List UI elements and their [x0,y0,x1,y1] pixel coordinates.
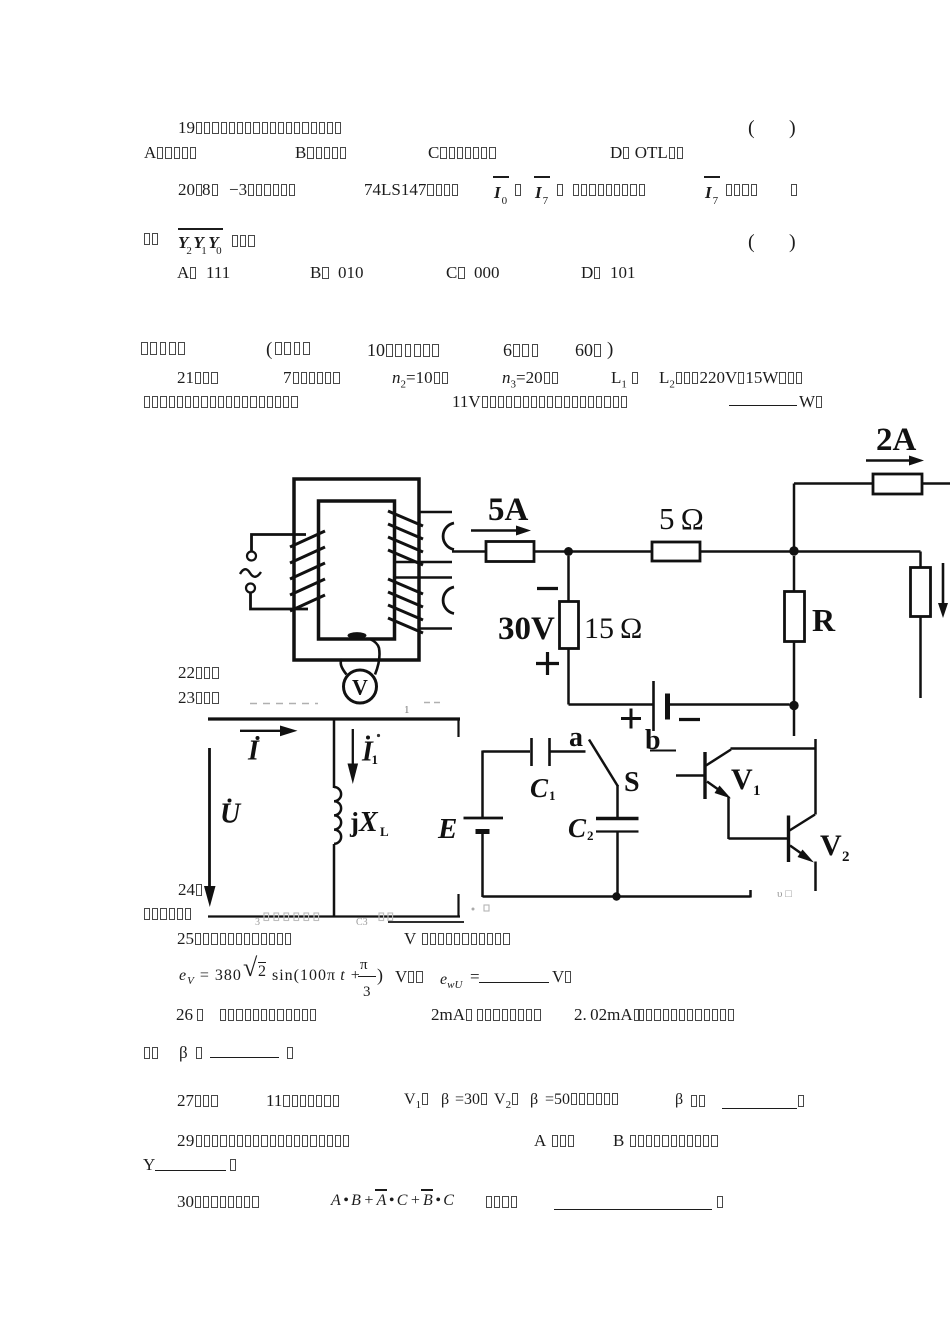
wire node B right corner down [919,552,922,568]
wire V1 emitter down [727,797,730,840]
wire bottom right segment [668,703,790,706]
wire node B down to R [793,556,796,592]
switch S stem [616,785,619,818]
voltmeter lead right [370,639,380,675]
wire V1 emitter to V2 base [729,837,789,840]
svg-text:2: 2 [842,849,850,865]
svg-text:2: 2 [587,828,594,843]
svg-text:S: S [624,767,640,798]
label plus of 30V [536,652,559,675]
svg-text:1: 1 [753,783,761,799]
wire V2 emitter down [814,862,817,892]
transistor V1 base bar [703,752,706,799]
wire N3 bottom lead [419,627,452,630]
switch S blade [589,740,618,787]
line 22 [178,664,220,681]
lamp L2 arc [443,587,454,614]
arrow current I [240,730,281,732]
wire N2 top lead [419,511,452,514]
arrow voltage U [208,748,211,888]
transformer T1 core outer [294,479,419,660]
line 20 [178,181,203,198]
arrow 5A current [471,529,517,532]
fig2 middle branch wire lower [333,844,336,916]
svg-text:V: V [820,829,842,862]
wire 2A branch to edge [922,482,950,485]
answer blank line artifact [388,921,464,923]
wire to node A [534,550,652,553]
fig2 right stub top [457,719,459,737]
resistor R box [785,592,805,642]
line 19 [178,119,342,136]
svg-text:30V: 30V [498,611,555,647]
fig2 top rail [208,717,460,720]
svg-text:υ □: υ □ [777,888,792,900]
arrow right current down [942,563,945,604]
wire node A down [567,556,570,602]
section header [140,340,186,357]
fig2 right stub bottom [457,894,459,917]
battery E left wire lower [481,832,484,898]
wire collectors vertical [814,739,817,815]
AC source terminal top [247,552,256,561]
inductor XL coil [334,787,341,844]
battery plus label [621,709,641,729]
line 24b [143,905,192,922]
transistor V1 emitter with arrow [707,782,724,794]
wire primary bottom lead [251,593,309,610]
wire from lamps to resistor [452,550,486,553]
capacitor C1 left plate [530,738,533,766]
line 21b [143,393,299,410]
lamp L1 arc [443,523,454,550]
capacitor C2 bottom plate [596,830,639,832]
wire below right resistor [919,617,922,699]
transformer secondary winding N3 [388,579,423,633]
line Y2Y1Y0 [143,230,159,247]
capacitor C1 right plate [548,738,551,766]
svg-text:C3: C3 [356,917,368,928]
svg-text:5 Ω: 5 Ω [659,501,704,536]
svg-text:E: E [437,813,457,845]
node B junction dot [789,546,798,555]
winding tap blob [348,632,367,639]
line 30 [177,1193,260,1210]
node A junction dot [564,547,573,556]
svg-text:C: C [568,813,587,843]
equation 25 [179,968,242,987]
svg-text:V: V [352,675,368,700]
wire 2A branch horizontal [794,482,873,485]
svg-text:X: X [358,807,379,838]
transistor V2 base bar [787,816,790,863]
battery E left wire upper [481,751,484,819]
wire node A to node B [700,550,921,553]
transformer T1 core inner window [319,501,395,639]
svg-text:I: I [247,736,260,767]
resistor right box [911,568,931,617]
fig2 bottom rail [208,915,460,917]
transformer secondary winding N2 [388,511,423,565]
line 29b [143,1156,155,1173]
resistor 5ohm box [652,542,700,561]
capacitor C2 top plate [596,817,639,820]
battery E long plate [464,817,504,820]
voltmeter lead left [341,659,347,675]
svg-text:1: 1 [549,788,556,803]
fig2 middle branch wire [333,720,336,788]
transformer primary winding N1 [290,531,325,611]
svg-text:a: a [569,722,583,753]
svg-text:1: 1 [404,704,410,716]
line 21 [177,369,219,386]
svg-text:15 Ω: 15 Ω [584,612,642,645]
transistor V2 collector [790,815,816,831]
svg-text:5A: 5A [488,492,529,528]
line 25 [177,930,292,947]
svg-text:1: 1 [372,752,379,767]
line 26 [176,1006,204,1023]
arrow current I1 [352,729,354,765]
battery E1 long plate [652,681,655,731]
resistor ammeter-branch box [486,542,534,562]
wire bottom left segment [569,703,654,706]
wire C2 down [616,832,619,898]
wire stub below node C [793,710,796,736]
line 23 [178,689,220,706]
wire node B up to 2A branch [793,484,796,548]
scan artifact dashes [250,703,441,704]
contact b tick [650,750,676,752]
transistor V1 collector [706,750,731,766]
svg-text:j: j [349,807,359,837]
line 20 options [177,264,230,281]
svg-text:U: U [220,799,242,830]
wire N2 bottom lead [395,561,453,564]
node C junction dot [789,701,798,710]
line 27 [177,1092,219,1109]
svg-text:2A: 2A [876,422,917,458]
fig3 bottom wire [483,895,751,898]
line 29 [177,1132,350,1149]
wire N3 top lead [395,576,453,579]
voltmeter V circle [344,670,377,703]
svg-text:R: R [812,602,836,638]
scan artifact boxes [264,913,393,921]
transistor V2 emitter with arrow [790,846,807,858]
wire R to node C [793,642,796,702]
resistor 2A-branch box [873,474,922,494]
resistor 15ohm box [560,602,579,649]
fig3 bottom junction dot [612,892,620,900]
line 19 options [144,144,197,161]
wire C1 to contact a [550,750,586,753]
line 26b [143,1044,159,1061]
label minus of 30V [537,587,558,590]
wire V1 collector rail [731,747,816,750]
line 24 [178,881,203,898]
wire 15ohm to bottom [567,649,570,705]
svg-text:C: C [530,773,549,803]
battery E1 short plate [665,694,670,720]
arrow 2A current [866,459,910,462]
AC source terminal bottom [246,584,255,593]
fig3 top wire [483,750,531,753]
battery E short plate [476,829,490,834]
wire primary top lead [252,535,307,552]
battery minus label [679,718,700,721]
fig3 bottom end tick [749,890,752,898]
transistor V1 base lead [676,774,705,777]
AC source tilde symbol [240,569,261,577]
svg-text:V: V [731,763,753,796]
svg-text:3: 3 [255,917,260,928]
svg-text:L: L [380,824,389,839]
